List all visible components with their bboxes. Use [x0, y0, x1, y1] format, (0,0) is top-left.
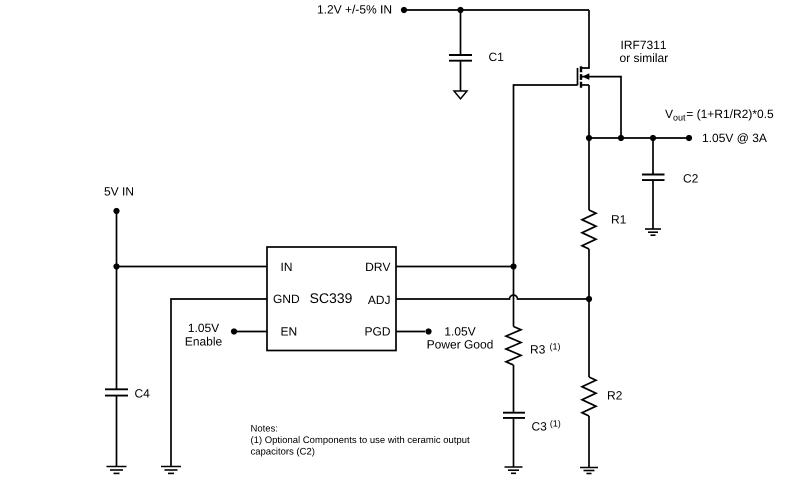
label R3 (1) [531, 343, 560, 354]
wire C1 bottom [460, 62, 462, 91]
junction dot ADJ/R1/R2 [586, 296, 592, 302]
wire C3 bottom [513, 419, 515, 467]
wire Q1 gate to DRV node [514, 85, 578, 267]
ground (C4) [107, 467, 127, 474]
label IRF7311 or similar [620, 41, 668, 63]
junction dot source/Vout [586, 135, 592, 141]
wire 5V to IN pin [117, 266, 268, 268]
terminal dot Vout [686, 135, 692, 141]
resistor R3 [506, 327, 521, 366]
ground (C2) [645, 229, 661, 235]
pin label GND [274, 295, 300, 304]
wire ADJ node to R2 [588, 299, 590, 377]
wire C1 top [460, 10, 462, 54]
wire top rail [404, 9, 589, 11]
net label 1.2V +/-5% IN [318, 5, 391, 14]
pin label EN [282, 327, 297, 335]
label C2 [684, 174, 698, 183]
pin label ADJ [368, 296, 390, 304]
label C4 [135, 389, 149, 398]
wire R1 to ADJ node [588, 249, 590, 299]
label 1.05V Enable [186, 324, 222, 346]
junction dot C1 tap [457, 7, 463, 13]
wire R3 to C3 [513, 365, 515, 412]
label C1 [489, 53, 503, 62]
wire C4 bottom [116, 397, 118, 467]
wire Vout to R1 [588, 138, 590, 210]
ic U1 SC339 box [267, 247, 396, 351]
net label 5V IN [105, 187, 134, 195]
wire C2 top [652, 138, 654, 174]
capacitor C3 [503, 413, 525, 418]
wire DRV node down to R3 [513, 267, 515, 327]
terminal dot EN [231, 328, 237, 334]
ground (R2) [580, 468, 598, 474]
terminal dot 5V IN [113, 208, 119, 214]
junction dot body/Vout [618, 135, 624, 141]
ground (C3) [505, 467, 523, 473]
wire GND pin [171, 299, 267, 467]
label Vout formula [665, 109, 773, 120]
wire R2 to ground [588, 416, 590, 468]
ground (GND pin) [161, 467, 181, 474]
wire DRV to gate node [396, 266, 514, 268]
resistor R2 [582, 377, 596, 416]
junction dot DRV/gate/R3 [510, 263, 516, 269]
capacitor C1 [449, 55, 472, 61]
wire EN [234, 331, 267, 333]
label C3 (1) [532, 420, 560, 431]
wire Q1 source to Vout rail [588, 85, 590, 138]
wire ADJ with hop [396, 295, 589, 299]
wire Q1 body to Vout rail [582, 77, 621, 138]
capacitor C4 [105, 389, 128, 395]
label 1.05V Power Good [428, 327, 493, 349]
note text [251, 425, 470, 457]
pin label DRV [366, 263, 390, 271]
label R1 [612, 215, 626, 223]
pin label PGD [366, 327, 390, 336]
wire Q1 drain [581, 10, 589, 68]
junction dot 5V/IN pin [113, 263, 119, 269]
pin label IN [282, 263, 292, 271]
ground (C1) triangle [454, 91, 467, 99]
wire C2 bottom [652, 181, 654, 229]
label R2 [608, 391, 622, 399]
wire Vout rail [589, 137, 689, 139]
terminal dot 1.2V IN [401, 7, 407, 13]
label 1.05V @ 3A [703, 133, 767, 143]
terminal dot PGD [425, 328, 431, 334]
label SC339 [310, 293, 352, 303]
resistor R1 [582, 210, 596, 249]
transistor Q1 IRF7311 [578, 66, 590, 88]
capacitor C2 [642, 175, 665, 181]
wire 5V IN vertical [116, 211, 118, 389]
wire PGD [396, 331, 425, 333]
junction dot C2 tap [650, 135, 656, 141]
